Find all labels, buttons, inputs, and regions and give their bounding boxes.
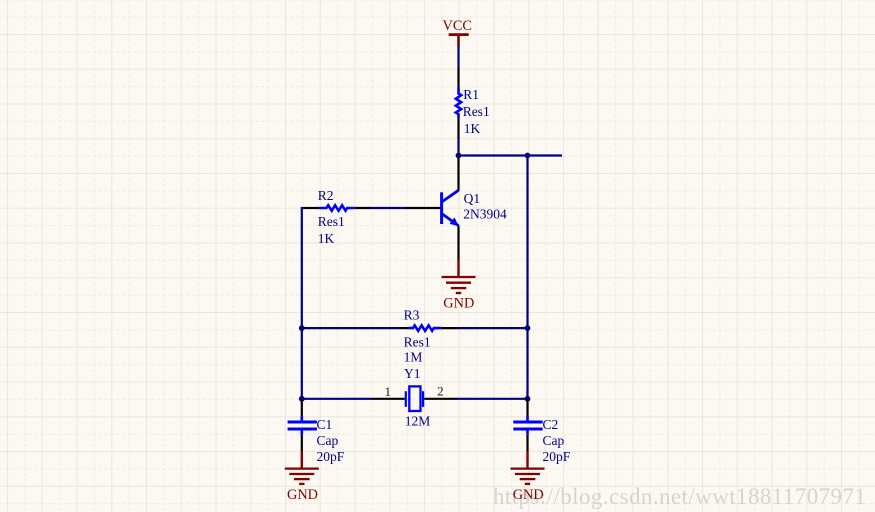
- junction top right node: [525, 153, 531, 159]
- wire top horizontal: [459, 154, 563, 156]
- svg-text:1K: 1K: [318, 231, 335, 246]
- svg-text:VCC: VCC: [443, 18, 472, 34]
- svg-text:1K: 1K: [464, 121, 481, 136]
- ground GND under C1: [285, 451, 319, 484]
- wire VCC to R1: [457, 46, 459, 67]
- svg-text:R2: R2: [318, 188, 334, 203]
- transistor Q1: [405, 157, 459, 260]
- resistor R3: [400, 325, 458, 330]
- svg-text:2N3904: 2N3904: [463, 206, 507, 221]
- ground GND under C2: [511, 451, 545, 484]
- svg-text:Y1: Y1: [404, 366, 421, 381]
- svg-text:Res1: Res1: [318, 214, 345, 229]
- wire R2 to Q1 base: [371, 207, 405, 209]
- junction right R3 node: [525, 325, 531, 331]
- wire right column lower: [526, 328, 528, 399]
- crystal Y1: [372, 386, 458, 411]
- svg-text:1: 1: [385, 384, 392, 399]
- wire R3 row left: [302, 327, 400, 329]
- wire crystal row left: [302, 398, 372, 400]
- svg-text:Cap: Cap: [543, 433, 565, 448]
- wire right column upper: [526, 156, 528, 329]
- svg-text:GND: GND: [513, 487, 544, 503]
- junction left R3 node: [299, 325, 305, 331]
- svg-text:R3: R3: [404, 308, 420, 323]
- capacitor C2: [513, 399, 542, 452]
- svg-text:Res1: Res1: [404, 335, 431, 350]
- junction left crystal node: [299, 396, 305, 402]
- wire R3 row right: [457, 327, 527, 329]
- svg-text:Q1: Q1: [464, 191, 481, 206]
- svg-text:C2: C2: [543, 417, 559, 432]
- wire crystal row right: [458, 398, 528, 400]
- ground GND under Q1: [442, 260, 476, 294]
- svg-text:Cap: Cap: [317, 433, 339, 448]
- svg-text:20pF: 20pF: [543, 449, 571, 464]
- svg-text:C1: C1: [317, 417, 333, 432]
- svg-text:2: 2: [437, 384, 444, 399]
- power port VCC: [449, 35, 469, 47]
- svg-text:R1: R1: [463, 87, 479, 102]
- wire R1 to collector node: [457, 139, 459, 156]
- svg-text:12M: 12M: [405, 414, 431, 429]
- resistor R2: [304, 205, 371, 210]
- svg-text:Res1: Res1: [463, 104, 490, 119]
- svg-text:20pF: 20pF: [317, 449, 345, 464]
- svg-text:GND: GND: [287, 487, 318, 503]
- svg-text:GND: GND: [443, 296, 474, 312]
- svg-text:1M: 1M: [404, 350, 423, 365]
- capacitor C1: [288, 399, 317, 452]
- junction collector node: [456, 153, 462, 159]
- resistor R1: [456, 67, 461, 139]
- svg-text:https://blog.csdn.net/wwt18811: https://blog.csdn.net/wwt18811707971: [493, 484, 866, 509]
- junction right crystal node: [525, 396, 531, 402]
- wire left column: [302, 208, 304, 399]
